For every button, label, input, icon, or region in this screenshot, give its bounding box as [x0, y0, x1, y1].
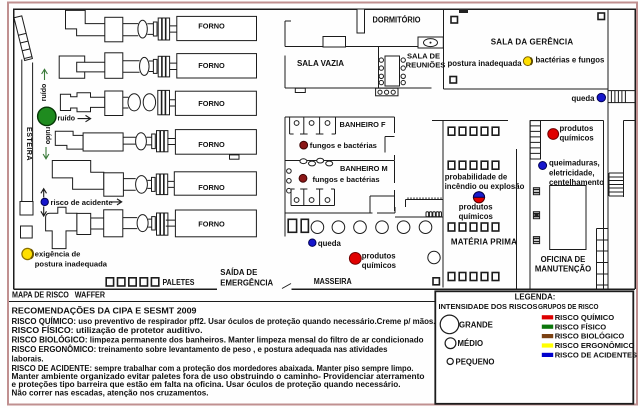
recommendation line 6: [12, 364, 414, 373]
row 3 oven connector: [170, 100, 176, 106]
row 3 roller ellipse B: [143, 94, 155, 111]
black up arrow (risco de acidente): [41, 189, 47, 198]
svg-text:RISCO BIOLÓGICO: limpeza perma: RISCO BIOLÓGICO: limpeza permanente dos …: [12, 336, 424, 345]
oven FORNO 4: [175, 130, 256, 155]
sala vazia door bump: [295, 88, 305, 92]
svg-text:ruído: ruído: [44, 127, 51, 145]
svg-text:DORMITÓRIO: DORMITÓRIO: [373, 16, 421, 25]
svg-text:OFICINA DE: OFICINA DE: [541, 255, 586, 264]
title MAPA DE RISCO WAFFER: [12, 291, 105, 300]
ruido label + arrow right of circle: [58, 115, 91, 122]
production line row 4 start hopper: [55, 131, 83, 149]
oficina ladder: [530, 121, 540, 159]
svg-text:MÉDIO: MÉDIO: [458, 339, 484, 348]
recommendation line 1: [12, 317, 436, 326]
row 4 wide block: [83, 133, 123, 151]
row 6 conveyor band: [123, 218, 137, 229]
meeting chairs left: [379, 58, 383, 85]
production line row 3 stepped shaft: [60, 93, 104, 112]
gerencia desk top-right: [598, 13, 605, 20]
svg-text:eletricidade,: eletricidade,: [549, 168, 595, 177]
swatch risco quimico: [542, 315, 553, 319]
sala gerencia left wall: [443, 9, 445, 89]
materia prima shelf squares row D: [448, 273, 499, 281]
ruido label vertical lower: [44, 127, 51, 145]
wall x=285 upper segments: [285, 21, 291, 88]
svg-text:GRANDE: GRANDE: [459, 320, 493, 329]
row 6 mixer block: [104, 210, 123, 237]
queda label masseira: [318, 239, 342, 248]
row 1 conveyor band: [123, 24, 138, 36]
svg-text:BANHEIRO F: BANHEIRO F: [340, 120, 386, 129]
svg-text:ESTEIRA: ESTEIRA: [25, 127, 34, 161]
materia prima top wall: [432, 119, 508, 121]
top stairs box right: [608, 91, 636, 103]
svg-text:químicos: químicos: [560, 133, 595, 142]
label risco ergonomico: [555, 341, 635, 350]
row 5 oven connector: [168, 181, 175, 187]
svg-text:RISCO QUÍMICO: uso preventivo: RISCO QUÍMICO: uso preventivo de respira…: [12, 317, 436, 326]
svg-text:FORNO: FORNO: [198, 99, 225, 108]
noise risk green circle (GRANDE): [38, 107, 56, 125]
gerencia desk bottom-left: [450, 77, 457, 84]
workbench rect: [550, 186, 586, 250]
bacterias e fungos label: [536, 56, 606, 65]
coil symbol: [395, 212, 442, 217]
emergency exit door swing: [282, 284, 291, 289]
PEQUENO circle: [447, 358, 453, 364]
row 3 conveyor band: [123, 97, 129, 108]
BANHEIRO M label: [340, 164, 388, 173]
row 6 small block: [77, 213, 91, 234]
masseira bowls (circles row): [311, 221, 432, 234]
row 2 roller ellipse: [140, 57, 150, 75]
svg-text:RISCO DE ACIDENTES: RISCO DE ACIDENTES: [555, 351, 637, 360]
produtos quimicos label materia prima: [459, 202, 494, 221]
sala gerencia bottom wall: [444, 88, 609, 90]
row 5 conveyor band: [123, 179, 135, 191]
produtos quimicos label oficina: [560, 124, 595, 142]
svg-text:FORNO: FORNO: [198, 21, 225, 30]
swatch risco fisico: [542, 325, 553, 329]
PALETES label: [163, 278, 195, 287]
SALA DE REUNIOES label: [406, 52, 446, 70]
svg-text:produtos: produtos: [560, 124, 594, 133]
materia prima right wall: [515, 149, 517, 289]
MEDIO circle: [445, 338, 456, 349]
row 1 mixer block: [105, 17, 123, 42]
row 3 coupling: [158, 90, 170, 114]
LEGENDA heading: [515, 293, 556, 302]
row 4 coupling: [146, 131, 168, 152]
oven FORNO 3: [175, 91, 256, 115]
svg-text:REUNIÕES: REUNIÕES: [406, 61, 446, 70]
recommendation line 2: [12, 326, 203, 335]
banheiro M stalls (bottom): [291, 189, 335, 206]
oven FORNO 6: [175, 210, 256, 237]
row 2 oven connector: [170, 63, 177, 69]
label risco biologico: [555, 332, 625, 341]
svg-text:postura inadequada: postura inadequada: [448, 59, 523, 68]
gerencia top door tab: [459, 9, 468, 13]
recommendation line 8: [12, 380, 401, 389]
urinals: [287, 169, 292, 193]
queda blue circle masseira: [309, 239, 316, 246]
svg-text:FORNO: FORNO: [198, 183, 225, 192]
row 2 feed band: [85, 62, 105, 72]
masseira lone circle right: [428, 251, 440, 263]
row 2 coupling: [149, 56, 170, 77]
svg-text:Não correr nas escadas, atençã: Não correr nas escadas, atenção nos cruz…: [12, 389, 209, 398]
svg-text:FORNO: FORNO: [198, 61, 225, 70]
posture yellow circle: [22, 248, 33, 259]
MATERIA PRIMA label: [451, 237, 517, 246]
fungos e bacterias label F: [310, 141, 377, 150]
svg-text:INTENSIDADE DOS RISCOS: INTENSIDADE DOS RISCOS: [439, 302, 538, 311]
svg-text:RISCO FÍSICO: RISCO FÍSICO: [555, 322, 607, 331]
production line row 1 start hopper: [66, 10, 106, 35]
BANHEIRO F label: [340, 120, 386, 129]
banheiro F stalls: [290, 117, 336, 134]
SAIDA DE EMERGENCIA label: [220, 268, 273, 287]
workshop outlet glyph 1: [533, 188, 539, 195]
svg-text:produtos: produtos: [459, 202, 493, 211]
oven FORNO 5: [174, 172, 256, 195]
produtos quimicos label masseira: [362, 251, 397, 270]
conveyor ESTEIRA corridor: [22, 60, 33, 202]
svg-text:LEGENDA:: LEGENDA:: [515, 293, 556, 302]
stair run mid-right: [609, 173, 623, 196]
oficina top wall: [530, 120, 603, 122]
svg-text:laborais.: laborais.: [12, 355, 44, 364]
fungos circle M (dark red): [299, 174, 307, 182]
row 1 roller ellipse: [138, 20, 147, 38]
queimaduras eletricidade centelhamento label: [549, 158, 604, 187]
row 5 coupling: [147, 174, 167, 195]
row 4 oven connector: [167, 139, 175, 145]
svg-text:queda: queda: [318, 239, 342, 248]
svg-text:SALA VAZIA: SALA VAZIA: [297, 59, 344, 68]
oven FORNO 2: [177, 54, 257, 78]
SALA DA GERENCIA label: [491, 38, 574, 47]
row 6 oven connector: [166, 220, 176, 226]
GRANDE circle: [440, 315, 459, 334]
svg-text:RISCO QUÍMICO: RISCO QUÍMICO: [555, 313, 615, 322]
small square lower-left: [21, 226, 33, 238]
MEDIO label: [458, 339, 484, 348]
risco de acidente label + arrow: [51, 198, 122, 207]
svg-text:queimaduras,: queimaduras,: [549, 158, 600, 167]
washbasin box with oval: [418, 37, 443, 48]
svg-text:MASSEIRA: MASSEIRA: [314, 277, 352, 286]
row 6 roller ellipse: [137, 215, 148, 232]
SALA VAZIA label: [297, 59, 344, 68]
svg-text:incêndio ou explosão: incêndio ou explosão: [445, 182, 525, 191]
svg-text:MAPA DE RISCO WAFFER: MAPA DE RISCO WAFFER: [12, 291, 105, 300]
small square above legend: [433, 278, 439, 285]
queda label top right: [572, 94, 596, 103]
label risco quimico: [555, 313, 615, 322]
diagonal ladder top-left: [14, 16, 32, 61]
swatch risco de acidentes: [542, 353, 553, 357]
exigencia de postura inadequada label: [35, 250, 108, 269]
GRANDE label: [459, 320, 493, 329]
black down arrow below blue circle: [41, 207, 47, 217]
row 4 conveyor band: [123, 137, 136, 144]
svg-text:MATÉRIA PRIMA: MATÉRIA PRIMA: [451, 237, 517, 246]
svg-text:produtos: produtos: [362, 251, 396, 260]
svg-text:SALA DA GERÊNCIA: SALA DA GERÊNCIA: [491, 38, 574, 47]
materia prima shelf squares row B: [448, 161, 499, 169]
sinks divider line: [285, 159, 394, 161]
svg-text:químicos: químicos: [362, 261, 397, 270]
svg-text:RECOMENDAÇÕES DA CIPA E SESMT: RECOMENDAÇÕES DA CIPA E SESMT 2009: [12, 306, 198, 315]
shelf rect on wall: [323, 37, 346, 48]
meeting chairs right: [401, 58, 405, 85]
ESTEIRA label (vertical): [25, 127, 34, 161]
svg-text:MANUTENÇÃO: MANUTENÇÃO: [535, 265, 591, 274]
stair run bottom-right: [596, 229, 608, 289]
label risco de acidentes: [555, 351, 637, 360]
svg-text:ruído: ruído: [58, 116, 76, 123]
recommendation line 5: [12, 355, 44, 364]
swatch risco biologico: [542, 334, 553, 338]
row 4 roller ellipse: [136, 133, 147, 150]
swatch risco ergonomico: [542, 343, 553, 347]
row 2 mixer block: [105, 53, 123, 79]
intensity / groups heading: [439, 302, 599, 311]
svg-text:químicos: químicos: [459, 212, 494, 221]
svg-text:fungos e bactérias: fungos e bactérias: [313, 175, 380, 184]
svg-text:GRUPOS DE RISCO: GRUPOS DE RISCO: [538, 302, 599, 311]
produtos quimicos red circle masseira: [349, 253, 361, 265]
fungos circle F (dark red): [300, 141, 308, 149]
svg-text:FORNO: FORNO: [198, 220, 225, 229]
svg-text:bactérias e fungos: bactérias e fungos: [536, 56, 606, 65]
oficina right wall: [603, 121, 605, 289]
row 1 coupling: [147, 18, 169, 40]
row 3 roller ellipse A: [128, 94, 140, 111]
banheiro M right walls: [370, 160, 394, 213]
recommendation line 9: [12, 389, 209, 398]
production line row 6 start piece: [46, 207, 77, 248]
materia prima left wall: [442, 120, 444, 287]
masseira thick square 2: [301, 219, 308, 232]
row 1 oven connector: [170, 26, 177, 32]
row 2 conveyor band: [123, 61, 140, 73]
svg-text:RISCO FÍSICO: utilização de pr: RISCO FÍSICO: utilização de protetor aud…: [12, 326, 203, 335]
svg-text:probabilidade de: probabilidade de: [445, 172, 508, 181]
banheiro F top wall: [285, 116, 394, 118]
banheiro F right wall + door: [385, 117, 395, 160]
accident risk blue circle: [41, 198, 48, 205]
svg-text:risco de acidente: risco de acidente: [51, 198, 113, 207]
gerencia desk top-left: [451, 17, 458, 24]
svg-text:EMERGÊNCIA: EMERGÊNCIA: [220, 278, 273, 287]
workshop outlet glyph 2: [533, 212, 539, 219]
posture yellow circle (gerencia): [523, 57, 532, 66]
svg-text:ruído: ruído: [41, 84, 48, 102]
meeting table: [385, 56, 400, 86]
svg-text:RISCO ERGONÔMICO: treinamento: RISCO ERGONÔMICO: treinamento sobre leva…: [12, 345, 389, 354]
svg-text:FORNO: FORNO: [198, 140, 225, 149]
PEQUENO label: [456, 357, 495, 366]
row 3 mixer block: [105, 91, 123, 116]
recommendation line 3: [12, 336, 424, 345]
svg-text:BANHEIRO M: BANHEIRO M: [340, 164, 388, 173]
svg-text:SALA DE: SALA DE: [407, 52, 440, 61]
svg-text:RISCO ERGONÔMICO: RISCO ERGONÔMICO: [555, 341, 635, 350]
oficina left wall: [529, 121, 531, 289]
queimaduras blue circle: [539, 162, 547, 170]
materia prima shelf squares row C: [448, 223, 499, 231]
green up arrow (ruido): [42, 69, 48, 80]
ruido label vertical upper: [41, 84, 48, 102]
label risco fisico: [555, 322, 607, 331]
dormitorio thick wall stub: [357, 9, 365, 33]
recommendation line 7: [12, 372, 425, 381]
OFICINA DE MANUTENCAO label: [535, 255, 591, 274]
svg-text:SAÍDA DE: SAÍDA DE: [220, 268, 257, 277]
queda blue circle top right: [597, 93, 605, 101]
row 6 feed band: [91, 218, 104, 229]
divider wall vazia/reunioes: [378, 47, 380, 89]
PALETES squares: [106, 278, 159, 286]
recommendation line 4: [12, 345, 389, 354]
row 4 oven foot: [230, 155, 240, 159]
svg-text:PEQUENO: PEQUENO: [456, 357, 495, 366]
produtos quimicos red circle oficina: [548, 129, 559, 140]
fungos e bacterias label M: [313, 175, 380, 184]
meeting chairs bottom box: [376, 88, 398, 96]
sink ovals: [300, 158, 333, 166]
svg-text:exigência de: exigência de: [35, 250, 81, 259]
title underline: [9, 301, 436, 303]
svg-text:fungos e bactérias: fungos e bactérias: [310, 141, 377, 150]
floor plan outer border: [14, 9, 636, 289]
right main wall x=608: [607, 9, 609, 289]
svg-text:RISCO BIOLÓGICO: RISCO BIOLÓGICO: [555, 332, 625, 341]
wall under dormitorio y=46.5: [285, 46, 418, 48]
explosion risk circle (blue/red): [473, 192, 484, 203]
row 6 coupling: [148, 213, 168, 235]
MASSEIRA label: [314, 277, 352, 286]
production line row 2 start bracket: [59, 56, 84, 78]
workshop outlet glyph 3: [533, 237, 539, 244]
production line row 5 start hopper: [52, 161, 104, 190]
svg-text:queda: queda: [572, 94, 596, 103]
inner corridor wall: [623, 120, 635, 197]
probabilidade incendio label: [445, 172, 525, 191]
conveyor end box: [20, 202, 33, 216]
postura inadequada label: [448, 59, 523, 68]
fence zipper line: [406, 197, 443, 207]
green down arrow (ruido): [43, 147, 49, 159]
row 5 mixer block: [104, 173, 124, 196]
materia prima shelf squares row A: [448, 127, 499, 135]
masseira top wall: [285, 207, 395, 213]
svg-text:PALETES: PALETES: [163, 278, 195, 287]
row 5 roller ellipse: [136, 176, 148, 194]
svg-text:postura inadequada: postura inadequada: [35, 259, 108, 268]
masseira thick square 1: [288, 219, 296, 232]
banheiro left wall x=285: [284, 117, 286, 236]
legend box: [435, 291, 633, 404]
sala vazia bottom wall: [285, 87, 431, 89]
recomendacoes heading: [12, 306, 198, 315]
DORMITORIO label: [373, 16, 421, 25]
oven FORNO 1: [177, 16, 257, 40]
